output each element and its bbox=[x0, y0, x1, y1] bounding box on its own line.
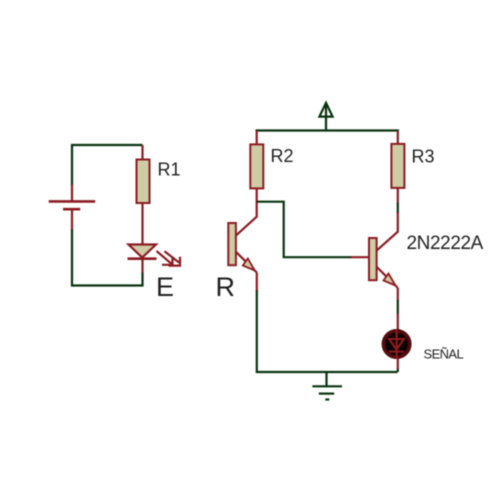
power symbol VCC arrow bbox=[319, 103, 332, 131]
wire: battery top pin bbox=[71, 185, 73, 201]
wire: cathode to ground rail (green) bbox=[397, 369, 399, 372]
wire: R1 top pin bbox=[141, 145, 143, 160]
wire: R2 bottom pin to phototransistor collector bbox=[236, 188, 257, 235]
wire: left circuit top rail bbox=[72, 145, 143, 186]
LED SEÑAL inner diode symbol bbox=[389, 330, 404, 358]
wire: R2 top pin bbox=[256, 131, 258, 146]
transistor Q2 emitter arrow bbox=[384, 274, 396, 286]
LED E light arrow 1 bbox=[157, 251, 173, 265]
LED E cathode bar bbox=[128, 257, 157, 260]
svg-text:R3: R3 bbox=[412, 147, 435, 167]
LED E light arrow 2 bbox=[165, 251, 181, 265]
phototransistor R emitter arrow bbox=[243, 259, 255, 271]
wire: Q2 collector pin bbox=[377, 212, 398, 250]
svg-text:R2: R2 bbox=[271, 146, 294, 166]
transistor Q2 emitter bbox=[377, 267, 398, 288]
wire: emitter down to ground rail bbox=[257, 291, 398, 373]
wire: top supply rail bbox=[256, 129, 400, 131]
wire: phototransistor emitter pin bbox=[256, 273, 258, 292]
wire: Q2 emitter pin bbox=[397, 288, 399, 301]
phototransistor R body bar bbox=[228, 223, 236, 265]
transistor Q2 body bar bbox=[369, 238, 377, 280]
wire: Q2 base pin bbox=[351, 256, 369, 258]
svg-text:E: E bbox=[156, 272, 174, 302]
wire: R1 to LED anode bbox=[141, 203, 143, 245]
wire: node to Q2 base (green) bbox=[257, 202, 352, 258]
wire: LED SEÑAL anode pin bbox=[397, 314, 399, 331]
svg-text:SEÑAL: SEÑAL bbox=[424, 347, 464, 362]
resistor R2 bbox=[250, 144, 263, 188]
svg-text:R1: R1 bbox=[158, 160, 181, 180]
resistor R1 bbox=[137, 160, 150, 204]
svg-text:R: R bbox=[216, 272, 236, 302]
wire: R3 top pin bbox=[397, 131, 399, 146]
wire: LED SEÑAL cathode pin bbox=[397, 358, 399, 370]
phototransistor R emitter bbox=[236, 252, 257, 273]
svg-text:2N2222A: 2N2222A bbox=[407, 233, 484, 254]
wire: left circuit bottom rail bbox=[72, 230, 143, 286]
battery BAT1 long plate bbox=[49, 200, 95, 203]
resistor R3 bbox=[391, 144, 404, 188]
LED E cathode pin bbox=[141, 259, 143, 273]
wire: R3 bottom pin bbox=[397, 188, 399, 204]
LED E diode triangle bbox=[129, 245, 157, 258]
wire: emitter to LED (green segment) bbox=[397, 300, 399, 315]
LED SEÑAL body circle bbox=[383, 331, 409, 357]
wire: R3 to Q2 collector (green) bbox=[397, 203, 399, 214]
wire: battery bottom pin bbox=[71, 209, 73, 230]
battery BAT1 short plate bbox=[63, 208, 80, 211]
ground symbol bbox=[312, 372, 342, 400]
